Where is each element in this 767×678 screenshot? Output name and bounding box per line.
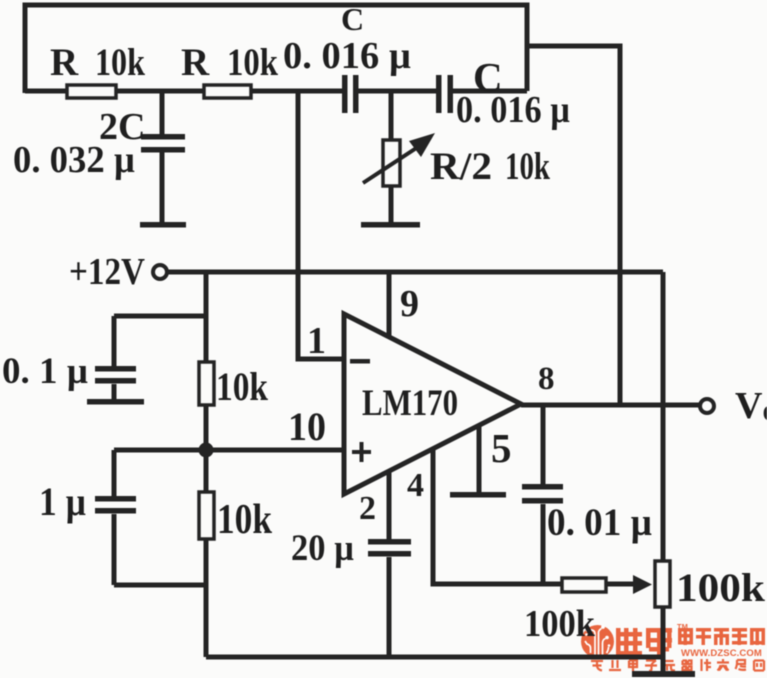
wire top rail box (left edge, top rail, right edge) <box>25 5 527 93</box>
watermark text weiku (2 large chars) <box>616 628 672 657</box>
svg-text:1 µ: 1 µ <box>39 479 86 524</box>
svg-text:0. 016 µ: 0. 016 µ <box>283 35 411 77</box>
svg-text:9: 9 <box>400 283 419 325</box>
watermark slogan (10 small chars) <box>591 659 764 671</box>
wire 1u stem and bottom connection <box>114 450 206 585</box>
svg-text:20 µ: 20 µ <box>291 528 354 569</box>
wire +12V rail <box>167 270 663 275</box>
wire pin 10 input <box>114 448 343 453</box>
wire pin 1 from twin-T mid node down to op-amp minus input <box>298 91 343 359</box>
capacitor 20u plates <box>368 539 411 557</box>
ground pot <box>632 671 695 677</box>
resistor R1 10k <box>67 85 116 98</box>
svg-text:10k: 10k <box>505 145 550 188</box>
wire bottom rail <box>206 655 663 660</box>
svg-text:10k: 10k <box>216 364 269 409</box>
op-amp minus sign <box>350 359 370 364</box>
potentiometer R/2 body <box>383 140 400 186</box>
potentiometer R/2 arrow <box>363 133 435 183</box>
arrow wiper <box>633 575 652 594</box>
svg-text:1: 1 <box>307 320 326 362</box>
watermark text dianzishichangwang (5 chars) <box>678 628 765 645</box>
ground 0.1u <box>87 399 144 405</box>
wire left bias column <box>204 272 209 657</box>
wire pin 4 elbow to 100k resistor <box>433 448 562 584</box>
wire 100k resistor to wiper arrow <box>606 582 637 587</box>
output terminal Vo circle <box>700 399 714 413</box>
capacitor C1 0.016u plates <box>342 75 359 113</box>
svg-text:R: R <box>181 41 210 84</box>
svg-text:100k: 100k <box>524 603 596 645</box>
svg-text:10k: 10k <box>217 497 273 543</box>
capacitor 0.01u plates <box>522 484 563 504</box>
wire pin 9 <box>387 272 392 340</box>
wire R/2 stem <box>389 91 394 222</box>
ground pin 5 <box>450 492 506 498</box>
watermark logo circle <box>581 625 614 658</box>
svg-text:0. 1 µ: 0. 1 µ <box>2 351 88 392</box>
svg-text:4: 4 <box>407 467 424 504</box>
capacitor 1u plates <box>95 496 136 514</box>
svg-text:2: 2 <box>359 490 376 527</box>
wire pot lower stem <box>661 607 666 674</box>
svg-text:C: C <box>341 1 364 37</box>
svg-text:0. 01 µ: 0. 01 µ <box>547 501 652 544</box>
wire pin 2 stem <box>387 470 392 541</box>
op-amp LM170 <box>344 314 521 494</box>
svg-text:+12V: +12V <box>69 251 145 293</box>
wire 0.01u stem <box>541 405 546 583</box>
capacitor 0.1u plates <box>95 366 136 384</box>
wire 20u lower stem <box>387 557 392 657</box>
wire 0.1u top connection <box>114 316 206 367</box>
op-amp plus sign <box>352 442 371 462</box>
ground R/2 <box>361 222 420 228</box>
svg-text:R/2: R/2 <box>430 145 492 188</box>
ground 2C <box>140 222 186 228</box>
wire output pin 8 <box>521 403 700 408</box>
svg-text:10k: 10k <box>95 41 145 84</box>
svg-text:VO: VO <box>735 385 767 427</box>
capacitor 2C plates <box>141 134 185 153</box>
resistor 100k feedback <box>562 578 606 592</box>
potentiometer 100k body <box>655 561 670 607</box>
svg-text:8: 8 <box>538 361 555 397</box>
resistor 10k lower bias <box>199 492 214 539</box>
capacitor C2 0.016u plates <box>436 75 453 113</box>
wire twin-T horizontal row <box>25 89 527 94</box>
resistor R2 10k <box>204 85 251 98</box>
supply terminal +12V circle <box>153 265 167 279</box>
svg-text:WWW.DZSC.COM: WWW.DZSC.COM <box>681 648 762 659</box>
svg-text:0. 032 µ: 0. 032 µ <box>13 139 135 181</box>
svg-text:LM170: LM170 <box>362 383 458 424</box>
wire pin 5 stem <box>477 424 482 494</box>
wire 2C stem <box>160 91 165 222</box>
svg-text:10k: 10k <box>227 41 278 84</box>
svg-text:100k: 100k <box>676 565 766 610</box>
svg-text:0. 016 µ: 0. 016 µ <box>456 89 570 131</box>
junction node <box>199 443 214 458</box>
wire right column rail-to-pot <box>661 272 666 561</box>
resistor 10k upper bias <box>199 362 214 405</box>
wire feedback branch from top box to output <box>527 46 620 403</box>
svg-text:10: 10 <box>288 404 326 449</box>
wire 0.1u lower stem <box>112 384 117 400</box>
svg-text:5: 5 <box>491 425 512 471</box>
svg-text:R: R <box>50 41 79 84</box>
